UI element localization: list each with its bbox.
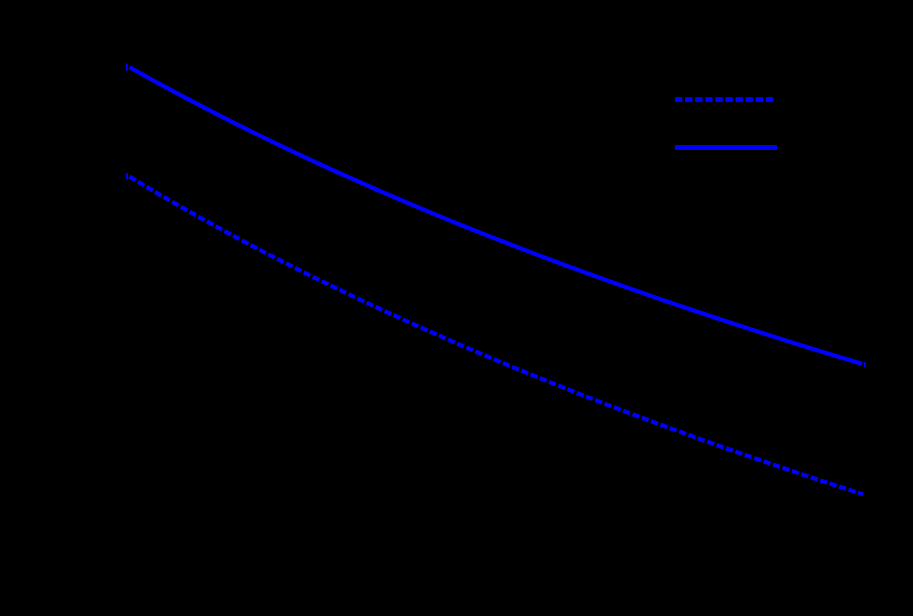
dashed curve	[129, 177, 863, 495]
dashed curve start tick	[126, 173, 128, 179]
solid curve	[130, 67, 863, 364]
legend solid line sample	[675, 145, 777, 150]
solid curve end tick	[864, 362, 866, 367]
legend dashed line sample	[675, 97, 776, 102]
solid curve start tick	[126, 64, 128, 71]
